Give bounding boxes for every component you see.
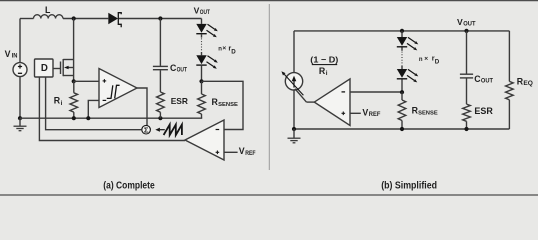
svg-text:OUT: OUT (463, 21, 476, 27)
svg-text:i: i (61, 100, 63, 107)
capacitor Cout (153, 19, 187, 93)
svg-text:Σ: Σ (144, 126, 149, 135)
node: Cout top circuit b (464, 29, 468, 33)
ground symbol circuit b (288, 129, 301, 143)
wire: comparator - input to ground rail (88, 100, 99, 118)
top border line (0, 0, 538, 2)
LED D2 (196, 24, 206, 33)
node: junction of L, diode, MOSFET drain (72, 16, 76, 20)
wire: bottom rail circuit b (294, 128, 509, 130)
wire: LED string to Rsense circuit b (401, 79, 403, 92)
summing node sigma (142, 125, 151, 134)
svg-text:(1 − D): (1 − D) (310, 54, 338, 64)
LED D5 (397, 69, 407, 78)
node: Ri bottom on ground rail (72, 116, 76, 120)
sawtooth (slope compensation ramp) waveform (164, 125, 182, 135)
svg-text:REF: REF (369, 112, 381, 118)
wire: summing node output to D block (line A) (46, 77, 142, 130)
wire: error amp output to D block (line B) (39, 77, 185, 141)
wire: op-amp output to current source control (295, 89, 314, 102)
svg-text:ESR: ESR (171, 96, 188, 106)
svg-text:ESR: ESR (474, 106, 493, 116)
svg-text:OUT: OUT (177, 68, 188, 74)
LED D4 (397, 37, 407, 46)
node: ESR bottom on ground rail (158, 116, 162, 120)
wire: op-amp - input to Rsense top (350, 91, 402, 93)
wire: top rail circuit b (294, 30, 509, 32)
resistor ESR (157, 92, 188, 118)
svg-text:V: V (5, 49, 11, 59)
wire: D output to MOSFET gate (53, 68, 61, 70)
wire: Vout corner down to LED string (201, 19, 203, 24)
Vin source (circle with +/-) (13, 19, 27, 119)
op-amp U3 (points left) (314, 79, 350, 126)
wire: LED string to Rsense (201, 66, 203, 82)
resistor Ri (54, 81, 78, 118)
svg-text:×: × (222, 45, 226, 52)
dashed wire between LEDs circuit b (401, 48, 403, 51)
svg-text:D: D (41, 63, 48, 74)
svg-text:D: D (231, 48, 236, 55)
svg-text:×: × (424, 56, 428, 63)
svg-text:OUT: OUT (481, 79, 493, 85)
dashed wire between LEDs (n in series) (201, 34, 203, 37)
node: op-amp - / LED / Rsense junction (400, 90, 404, 94)
schottky diode D1 (108, 13, 121, 28)
MOSFET Q1 (61, 19, 74, 82)
bottom border line (0, 194, 538, 196)
svg-text:i: i (326, 70, 328, 77)
ground symbol circuit a (14, 118, 27, 131)
node: Rsense bottom circuit b (400, 127, 404, 131)
node: MOSFET source / Ri / comparator + (72, 79, 76, 83)
inductor L (34, 5, 63, 19)
svg-text:EQ: EQ (523, 81, 533, 87)
wire: rail to LED1 (401, 31, 403, 37)
node: comparator - on ground rail (86, 116, 90, 120)
(1-D)/Ri fraction label (310, 54, 338, 77)
wire: comparator output down to summing node (137, 88, 147, 126)
Vref stub circuit a (224, 146, 256, 157)
svg-text:SENSE: SENSE (418, 111, 438, 117)
error amplifier U2 (points left) (185, 120, 224, 160)
svg-text:V: V (362, 107, 368, 117)
svg-text:V: V (239, 146, 245, 156)
control arrow through current source (284, 74, 303, 95)
svg-text:SENSE: SENSE (218, 102, 238, 108)
svg-text:OUT: OUT (200, 10, 210, 16)
node: LED column top (400, 29, 404, 33)
node: ESR bottom circuit b (464, 127, 468, 131)
ramp input arrow into summing node (155, 128, 165, 132)
capacitor Cout circuit b (460, 31, 493, 104)
svg-text:(b) Simplified: (b) Simplified (381, 181, 437, 192)
controlled current source (1-D)/Ri (285, 31, 302, 129)
resistor ESR circuit b (463, 104, 494, 129)
svg-text:REF: REF (245, 151, 256, 157)
driver block D (35, 59, 54, 77)
resistor Req (506, 31, 534, 129)
svg-text:V: V (194, 5, 200, 15)
Vref stub circuit b (350, 107, 381, 118)
wire: top rail of circuit a (Vin to Vout) (20, 18, 202, 20)
svg-text:(a) Complete: (a) Complete (103, 181, 155, 192)
svg-text:n: n (419, 57, 423, 63)
svg-text:IN: IN (12, 54, 18, 60)
wire: feedback from Rsense top to error amp - input (202, 81, 244, 129)
ground node of circuit a (18, 116, 22, 120)
svg-text:D: D (435, 59, 440, 66)
node: LED / Rsense / feedback junction (199, 79, 203, 83)
hysteretic comparator U1 (99, 69, 137, 108)
ground rail of circuit a (20, 117, 202, 119)
divider between (a) and (b) (268, 4, 270, 170)
LED D3 (196, 55, 206, 64)
svg-text:L: L (45, 5, 51, 15)
node: current source bottom / ground (292, 127, 296, 131)
svg-text:V: V (457, 17, 463, 27)
node: Cout tap on top rail (158, 16, 162, 20)
resistor Rsense circuit b (398, 92, 438, 129)
resistor Rsense circuit a (198, 81, 238, 118)
wire: source node to comparator + input (74, 80, 99, 82)
